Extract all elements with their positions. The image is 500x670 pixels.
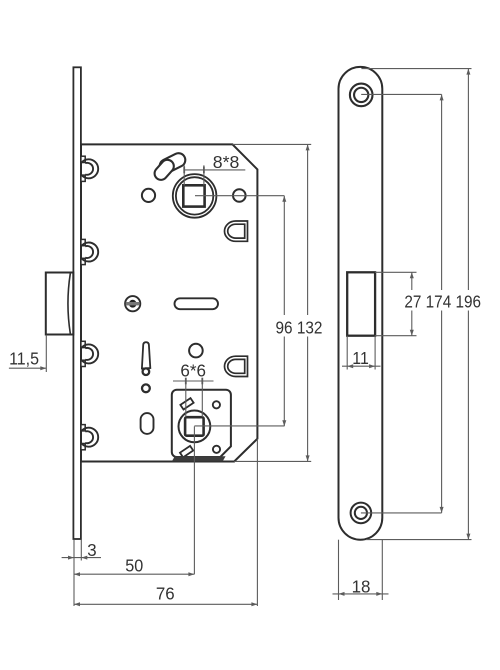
svg-text:96 132: 96 132 <box>276 317 323 337</box>
svg-text:18: 18 <box>352 577 371 597</box>
svg-text:3: 3 <box>87 540 97 560</box>
svg-text:11,5: 11,5 <box>9 348 39 368</box>
svg-text:6*6: 6*6 <box>180 360 206 380</box>
svg-text:50: 50 <box>125 555 143 575</box>
svg-text:27 174 196: 27 174 196 <box>404 291 481 311</box>
svg-text:11: 11 <box>352 348 369 368</box>
svg-text:76: 76 <box>156 584 175 604</box>
svg-text:8*8: 8*8 <box>213 152 240 172</box>
